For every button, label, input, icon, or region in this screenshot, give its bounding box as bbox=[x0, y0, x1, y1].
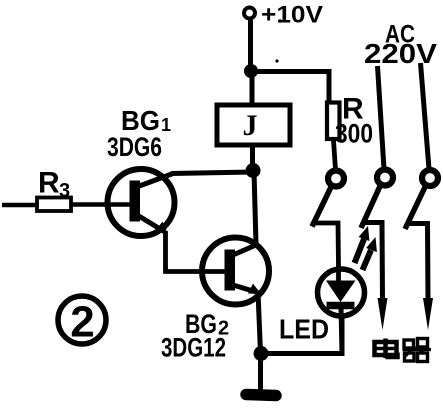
switch SW2 (AC contact 1) bbox=[361, 170, 393, 229]
switch SW3 (AC contact 2) bbox=[405, 170, 438, 229]
wire ground junction to LED cathode bbox=[261, 315, 342, 354]
node ground junction bbox=[254, 346, 269, 361]
ground bbox=[246, 395, 276, 396]
LED emission arrow 1 bbox=[355, 226, 370, 263]
wire input left bbox=[2, 203, 36, 208]
svg-text:300: 300 bbox=[335, 119, 373, 149]
wire BG1 emitter to BG2 base bbox=[166, 231, 227, 272]
svg-text:1: 1 bbox=[161, 115, 171, 135]
wire junction to R branch bbox=[251, 72, 329, 104]
svg-text:3: 3 bbox=[59, 180, 70, 202]
wire AC line 1 bbox=[378, 66, 385, 169]
wire junction to relay bbox=[250, 71, 255, 104]
resistor R3 bbox=[37, 198, 71, 212]
scan speck bbox=[275, 59, 278, 62]
svg-text:3DG6: 3DG6 bbox=[107, 132, 162, 162]
svg-text:LED: LED bbox=[279, 314, 329, 345]
scan dot bbox=[278, 19, 282, 23]
label R3 bbox=[38, 167, 70, 203]
svg-text:+10V: +10V bbox=[261, 2, 323, 29]
svg-text:R: R bbox=[38, 167, 60, 200]
svg-text:220V: 220V bbox=[364, 38, 437, 69]
wire R3 to BG1 base bbox=[72, 202, 131, 207]
wire SW1 to LED anode bbox=[315, 223, 339, 268]
node supply junction bbox=[244, 64, 258, 78]
terminal +10V bbox=[244, 8, 255, 19]
wire SW2 to load arrow bbox=[364, 223, 383, 302]
transistor BG2 bbox=[202, 238, 269, 305]
label appliance 电器 bbox=[375, 339, 432, 362]
transistor BG1 bbox=[108, 169, 175, 236]
arrow to appliance 2 bbox=[423, 298, 433, 330]
figure number 2 bbox=[58, 296, 106, 347]
switch SW1 (LED contact) bbox=[312, 171, 344, 227]
wire BG2 emitter down bbox=[258, 292, 261, 353]
wire SW3 to load arrow bbox=[408, 224, 428, 302]
wire to ground bbox=[258, 353, 263, 391]
wire supply down bbox=[248, 20, 253, 71]
wire relay to node bbox=[250, 146, 255, 170]
arrow to appliance 1 bbox=[378, 298, 388, 330]
LED D1 bbox=[318, 266, 365, 353]
LED emission arrow 2 bbox=[363, 237, 377, 270]
resistor R 300 bbox=[327, 103, 340, 140]
svg-text:J: J bbox=[243, 109, 258, 142]
svg-text:2: 2 bbox=[70, 298, 94, 347]
label BG1 bbox=[121, 105, 171, 136]
wire AC line 2 bbox=[421, 63, 430, 169]
wire R to switch SW1 bbox=[334, 140, 336, 170]
label BG2 bbox=[185, 309, 229, 340]
wire node down to BG2 collector bbox=[254, 171, 256, 244]
wire node to BG1 collector bbox=[171, 172, 253, 174]
svg-text:3DG12: 3DG12 bbox=[161, 333, 226, 363]
relay coil J bbox=[217, 105, 290, 145]
node collector junction bbox=[246, 163, 261, 178]
